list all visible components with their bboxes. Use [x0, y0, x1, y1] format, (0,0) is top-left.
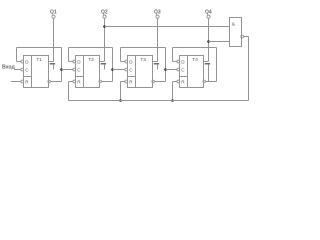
wire: inverse output of T2 to loop — [101, 81, 112, 83]
wire: D feedback loop of T3 — [121, 48, 166, 82]
wire: inverse tap of T1 down — [53, 64, 55, 69]
wire: input to C of T1 — [14, 69, 21, 71]
terminal Q2 — [101, 10, 108, 19]
svg-text:T1: T1 — [36, 57, 42, 62]
inverse output pin of T4 — [203, 80, 206, 83]
pin D of T1 — [21, 60, 24, 63]
flip-flop T3 body — [128, 56, 153, 88]
wire: inverse output of T1 to loop — [50, 81, 61, 83]
node: junction at loop of T2 — [111, 68, 114, 71]
wire: inverse tap of T2 down — [104, 64, 106, 69]
svg-text:C: C — [181, 67, 185, 72]
wire: R stub of T1 — [11, 81, 21, 83]
pin D of T2 — [73, 60, 76, 63]
wire: R of T2 to reset bus — [69, 82, 74, 101]
wire: stage 3 to C of stage 4 — [166, 69, 178, 71]
wire: Q output of T2 — [100, 18, 105, 61]
node: bus junction under T3 — [119, 99, 122, 102]
wire: Q output of T1 — [49, 18, 54, 61]
wire: Q output of T4 — [204, 18, 209, 61]
node: junction at loop of T3 — [164, 68, 167, 71]
terminal Q3 — [154, 10, 161, 19]
pin R of T1 — [21, 80, 24, 83]
wire: D feedback loop of T2 — [69, 48, 113, 82]
wire: stage 2 to C of stage 3 — [113, 69, 126, 71]
svg-text:C: C — [77, 67, 81, 72]
node: junction at loop of T1 — [60, 68, 63, 71]
inverse output pin of T3 — [152, 80, 155, 83]
svg-text:&: & — [232, 21, 236, 27]
pin-number mark right of T2 — [101, 63, 106, 65]
wire: Q2 to AND gate input 1 — [105, 26, 230, 28]
terminal Q1 — [50, 10, 57, 19]
wire: reset bus — [69, 100, 249, 102]
node: junction on Q4 line — [207, 40, 210, 43]
pin R of T2 — [73, 80, 76, 83]
wire: Q output of T3 — [153, 18, 158, 61]
svg-text:C: C — [25, 67, 29, 72]
svg-text:T3: T3 — [140, 57, 146, 62]
svg-text:Q2: Q2 — [101, 10, 108, 16]
pin D of T3 — [125, 60, 128, 63]
pin C of T2 — [73, 68, 76, 71]
svg-text:D: D — [25, 59, 29, 64]
wire: D feedback loop of T4 — [173, 48, 217, 82]
pin-number mark right of T4 — [205, 63, 210, 65]
svg-text:D: D — [77, 59, 81, 64]
pin R of T3 — [125, 80, 128, 83]
pin R of T4 — [177, 80, 180, 83]
wire: Q4 to AND gate input 2 — [209, 41, 230, 43]
svg-text:T4: T4 — [192, 57, 198, 62]
svg-text:Q1: Q1 — [50, 10, 57, 16]
pin C of T1 — [21, 68, 24, 71]
svg-text:R: R — [25, 79, 29, 84]
pin C of T4 — [177, 68, 180, 71]
pin-number mark right of T1 — [50, 63, 55, 65]
svg-text:Q4: Q4 — [205, 10, 212, 16]
pin D of T4 — [177, 60, 180, 63]
svg-text:Вход: Вход — [2, 64, 16, 70]
node: junction on Q2 line — [103, 25, 106, 28]
svg-text:D: D — [129, 59, 133, 64]
flip-flop T4 body — [180, 56, 204, 88]
output pin of AND gate — [241, 35, 244, 38]
wire: inverse tap of T4 down — [208, 64, 210, 81]
node: bus junction under T4 — [171, 99, 174, 102]
svg-text:R: R — [77, 79, 81, 84]
wire: R of T3 to reset bus — [121, 82, 126, 101]
svg-text:Q3: Q3 — [154, 10, 161, 16]
AND gate U1 — [230, 18, 242, 47]
svg-text:T2: T2 — [88, 57, 94, 62]
svg-text:R: R — [129, 79, 133, 84]
wire: stage 1 to C of stage 2 — [62, 69, 74, 71]
flip-flop T1 body — [24, 56, 49, 88]
wire: inverse output of T4 to loop — [205, 81, 216, 83]
inverse output pin of T2 — [99, 80, 102, 83]
wire: R of T4 to reset bus — [173, 82, 178, 101]
pin C of T3 — [125, 68, 128, 71]
svg-text:D: D — [181, 59, 185, 64]
svg-text:C: C — [129, 67, 133, 72]
wire: inverse output of T3 to loop — [154, 81, 165, 83]
pin-number mark right of T3 — [154, 63, 159, 65]
wire: D feedback loop of T1 — [17, 48, 62, 82]
svg-text:R: R — [181, 79, 185, 84]
terminal Q4 — [205, 10, 212, 19]
inverse output pin of T1 — [48, 80, 51, 83]
flip-flop T2 body — [76, 56, 100, 88]
wire: AND output down to reset bus — [244, 37, 249, 101]
wire: inverse tap of T3 down — [157, 64, 159, 69]
